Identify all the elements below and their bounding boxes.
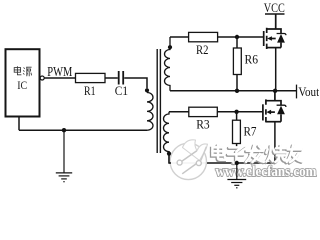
svg-text:IC: IC — [17, 80, 27, 92]
junction dot at left ground — [62, 128, 66, 132]
mosfet Q1 — [264, 14, 286, 49]
ground (left) — [56, 173, 72, 182]
Vout terminal tick — [296, 85, 298, 99]
Q1 body diode — [277, 34, 285, 43]
junction dot mosfet node — [273, 89, 277, 93]
Q2 body diode — [277, 106, 285, 115]
wire to R7 — [236, 112, 238, 120]
svg-text:R1: R1 — [84, 83, 96, 98]
watermark logo circle — [170, 140, 207, 180]
bottom ground rail — [169, 162, 275, 164]
Q2 substrate arrow — [266, 110, 271, 115]
watermark text www.elecfans.com — [215, 164, 317, 181]
transformer secondary top winding polarity dot — [168, 45, 172, 49]
power IC box U1 — [6, 49, 40, 116]
resistor R3 — [189, 107, 218, 116]
wire down to left ground — [63, 130, 65, 172]
PWM output terminal circle — [40, 76, 44, 80]
wire IC bottom to ground rail — [18, 117, 20, 131]
wire C1 to primary winding — [124, 78, 147, 88]
VCC bar — [265, 13, 285, 15]
wire down to right ground — [236, 163, 238, 179]
transformer secondary top winding — [165, 37, 171, 91]
transformer secondary bottom winding — [164, 112, 170, 163]
wire R3 to gate Q2 — [217, 111, 263, 113]
svg-text:PWM: PWM — [47, 64, 72, 79]
capacitor C1 — [119, 71, 124, 85]
wire to R6 — [236, 37, 238, 48]
svg-text:R7: R7 — [244, 124, 257, 139]
Q1 source wire down — [275, 48, 277, 91]
transformer T1 primary winding — [147, 93, 153, 131]
Q2 source wire down — [274, 122, 276, 163]
transformer core — [157, 49, 160, 153]
svg-text:R2: R2 — [196, 42, 209, 57]
wire secondary bottom to R3 — [169, 111, 189, 113]
mosfet Q2 — [263, 91, 286, 123]
resistor R1 — [76, 73, 106, 82]
transformer primary winding polarity dot — [145, 88, 149, 92]
resistor R7 — [233, 120, 241, 143]
junction dot right ground — [235, 161, 239, 165]
resistor R2 — [189, 32, 218, 41]
junction dot R6 bottom — [235, 89, 239, 93]
junction dot R6 top — [235, 35, 239, 39]
wire PWM to R1 — [44, 77, 75, 79]
wire R1 to C1 — [105, 77, 118, 79]
Vout rail — [170, 90, 297, 92]
svg-text:R6: R6 — [245, 52, 259, 67]
wire R7 bottom to bottom rail — [236, 144, 238, 164]
label 电源 — [14, 66, 31, 76]
junction dot R7 top — [234, 110, 238, 114]
svg-text:C1: C1 — [115, 83, 128, 98]
wire secondary bottom terminal — [169, 155, 171, 163]
svg-text:Vout: Vout — [298, 84, 319, 99]
Q1 substrate arrow — [267, 36, 272, 41]
wire R6 bottom to Vout rail — [236, 75, 238, 91]
svg-text:R3: R3 — [196, 117, 210, 132]
svg-text:www.elecfans.com: www.elecfans.com — [216, 164, 317, 180]
svg-text:VCC: VCC — [264, 0, 285, 15]
resistor R6 — [233, 48, 241, 75]
ground (right) — [227, 180, 246, 188]
wire secondary top to R2 — [170, 36, 189, 38]
primary ground rail wire — [19, 129, 147, 131]
wire R2 to gate Q1 — [218, 36, 264, 38]
transformer secondary bottom polarity dot — [167, 152, 171, 156]
